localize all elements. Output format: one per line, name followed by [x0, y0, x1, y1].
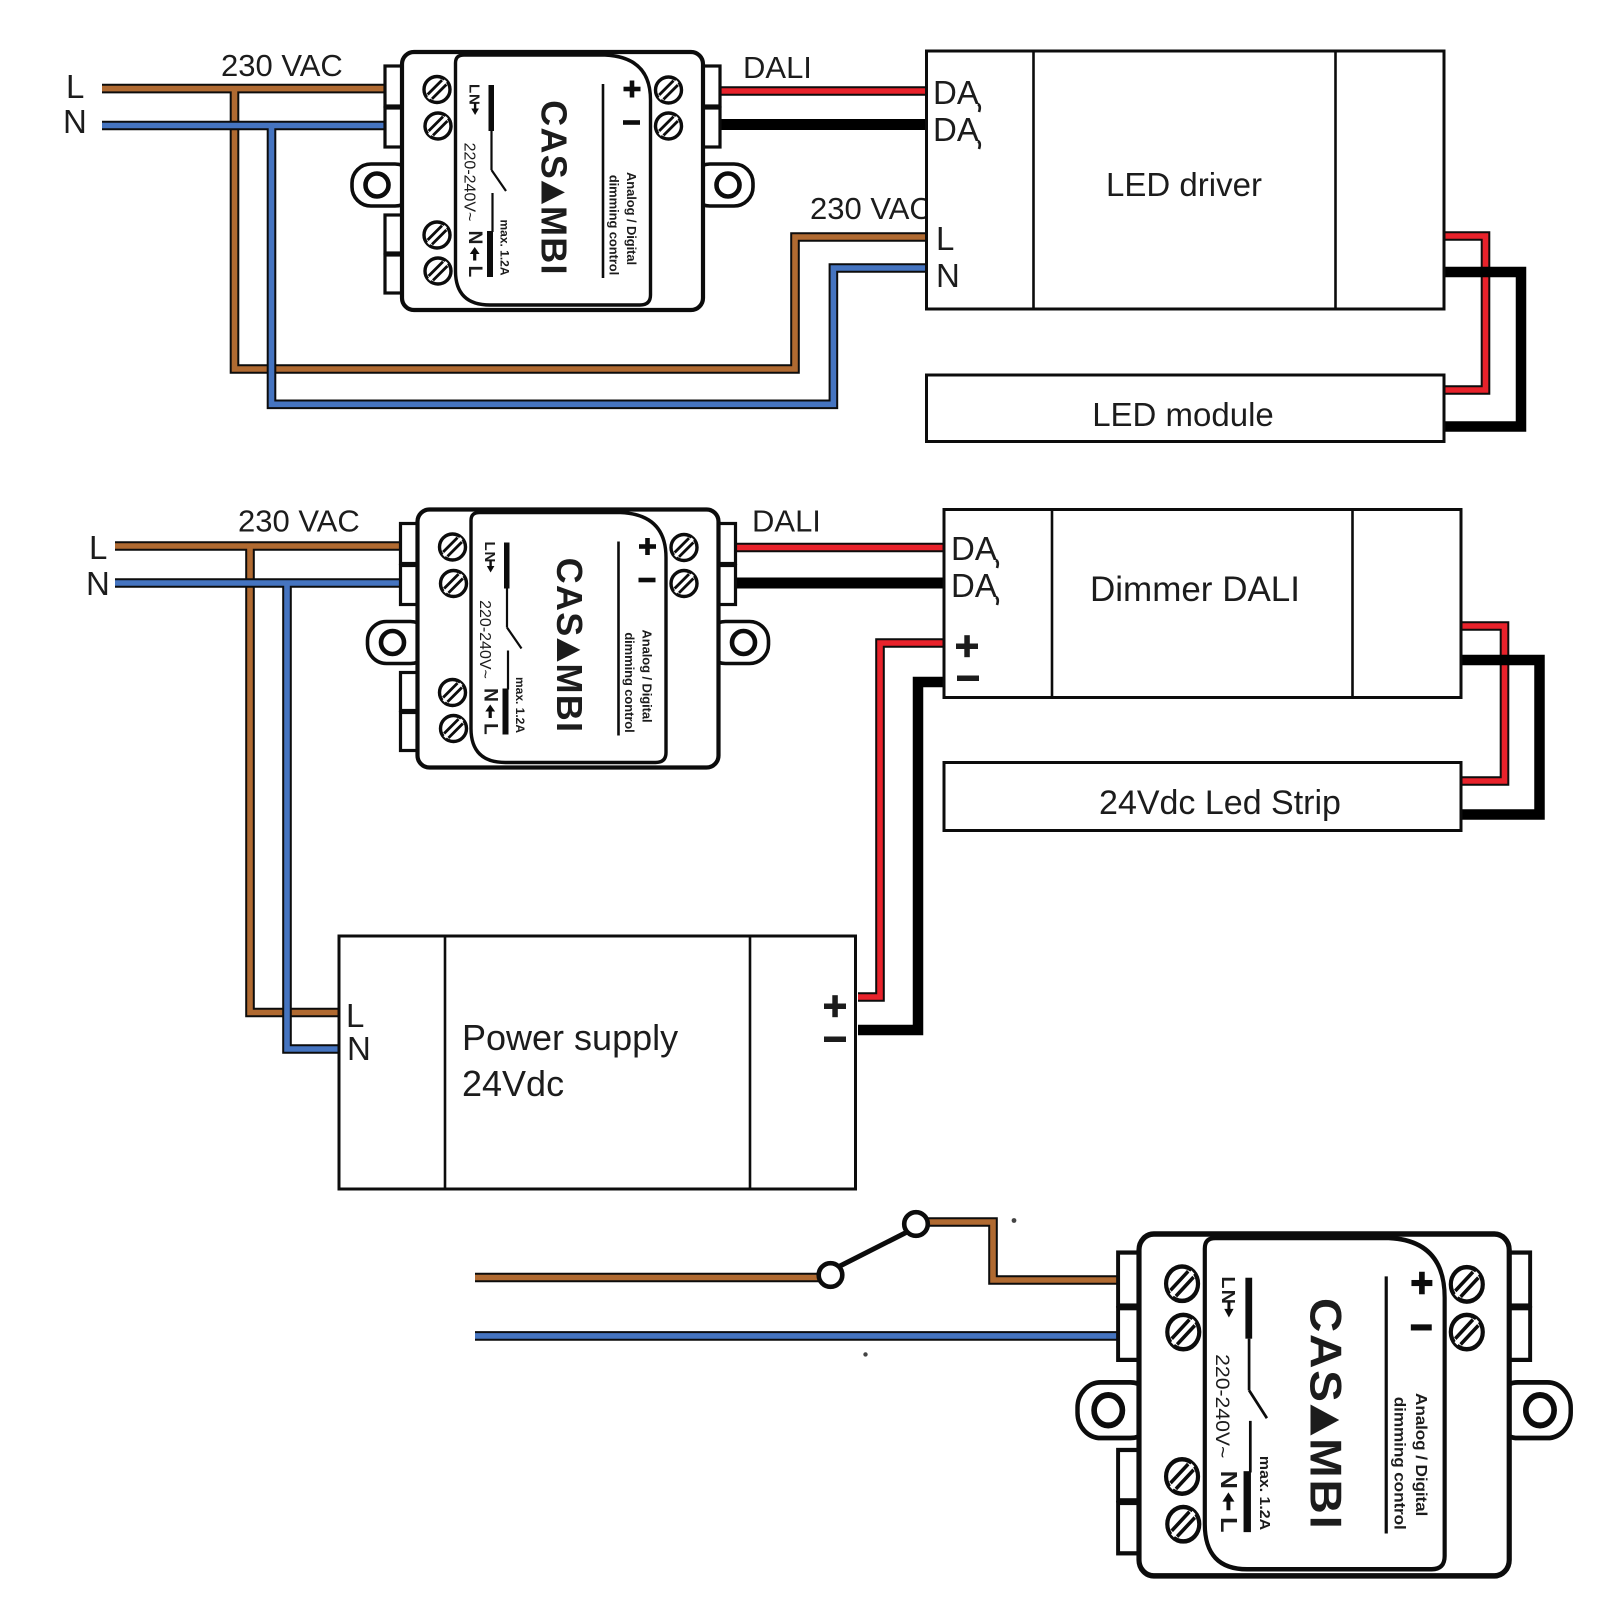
svg-text:Dimmer DALI: Dimmer DALI [1090, 570, 1300, 609]
svg-text:N: N [86, 565, 110, 602]
svg-text:L: L [66, 68, 84, 105]
wire LED driver output red to LED module [1443, 236, 1486, 390]
comma mark [996, 560, 998, 568]
wire net N blue (middle): feed and branch to power supply N [115, 583, 405, 1049]
stray mark 1 [1012, 1218, 1017, 1223]
box LED driver [927, 51, 1445, 309]
wire DALI black (middle) [734, 578, 948, 589]
wire net N blue (top): feed, tee branch under module to LED driver N [102, 126, 928, 405]
svg-text:230 VAC: 230 VAC [238, 504, 360, 539]
pin label - (power supply) [824, 1037, 846, 1043]
pin label - (dimmer) [957, 676, 979, 682]
svg-text:DALI: DALI [752, 504, 821, 539]
svg-text:L: L [89, 529, 107, 566]
svg-text:DA: DA [951, 567, 997, 604]
module U1 CASAMBI (top) [352, 52, 753, 310]
module U2 CASAMBI (middle) [368, 510, 769, 768]
wire DALI black (top) [719, 119, 928, 130]
wire brown switched line (after switch to module) [927, 1222, 1122, 1280]
svg-text:LED module: LED module [1092, 396, 1274, 433]
wire 24V black from power supply - to dimmer - [858, 682, 947, 1030]
module U3 CASAMBI (bottom) [1078, 1234, 1571, 1576]
wire dimmer output red to led strip [1459, 626, 1505, 781]
wire dimmer output black to led strip [1459, 660, 1540, 815]
svg-text:230 VAC: 230 VAC [221, 48, 343, 83]
wire brown switched line (before switch) [475, 1273, 820, 1283]
wire LED driver output black to LED module [1443, 272, 1521, 427]
comma mark [996, 597, 998, 605]
comma mark [978, 141, 980, 149]
wire net L brown (top): feed, tee branch under module to LED driver L [102, 89, 928, 369]
pin label + (power supply) [824, 1004, 846, 1010]
wire blue neutral (bottom) [475, 1331, 1122, 1341]
box 24Vdc Led Strip [944, 763, 1461, 831]
svg-text:L: L [346, 997, 364, 1034]
pin label + (dimmer) [956, 644, 978, 650]
svg-text:LED driver: LED driver [1106, 166, 1262, 203]
svg-text:Power supply: Power supply [462, 1017, 678, 1058]
wire 24V red from power supply + to dimmer + [858, 643, 947, 997]
wire DALI red (top) [719, 86, 928, 96]
svg-text:N: N [347, 1030, 371, 1067]
svg-text:230 VAC: 230 VAC [810, 191, 932, 226]
box Dimmer DALI [944, 510, 1461, 698]
comma mark [978, 104, 980, 112]
svg-text:N: N [936, 257, 960, 294]
wire DALI red (middle) [734, 543, 948, 553]
svg-text:N: N [63, 103, 87, 140]
svg-text:DA: DA [951, 530, 997, 567]
box Power supply 24Vdc [339, 936, 856, 1189]
stray mark 2 [863, 1352, 867, 1356]
svg-text:L: L [936, 220, 954, 257]
svg-text:DA: DA [933, 111, 979, 148]
wire net L brown (middle): feed and branch to power supply L [115, 546, 405, 1013]
svg-text:DALI: DALI [743, 50, 812, 85]
svg-text:24Vdc Led Strip: 24Vdc Led Strip [1099, 784, 1341, 822]
svg-text:DA: DA [933, 74, 979, 111]
box LED module [927, 375, 1445, 442]
switch SW1 [819, 1212, 928, 1287]
svg-text:24Vdc: 24Vdc [462, 1063, 564, 1104]
